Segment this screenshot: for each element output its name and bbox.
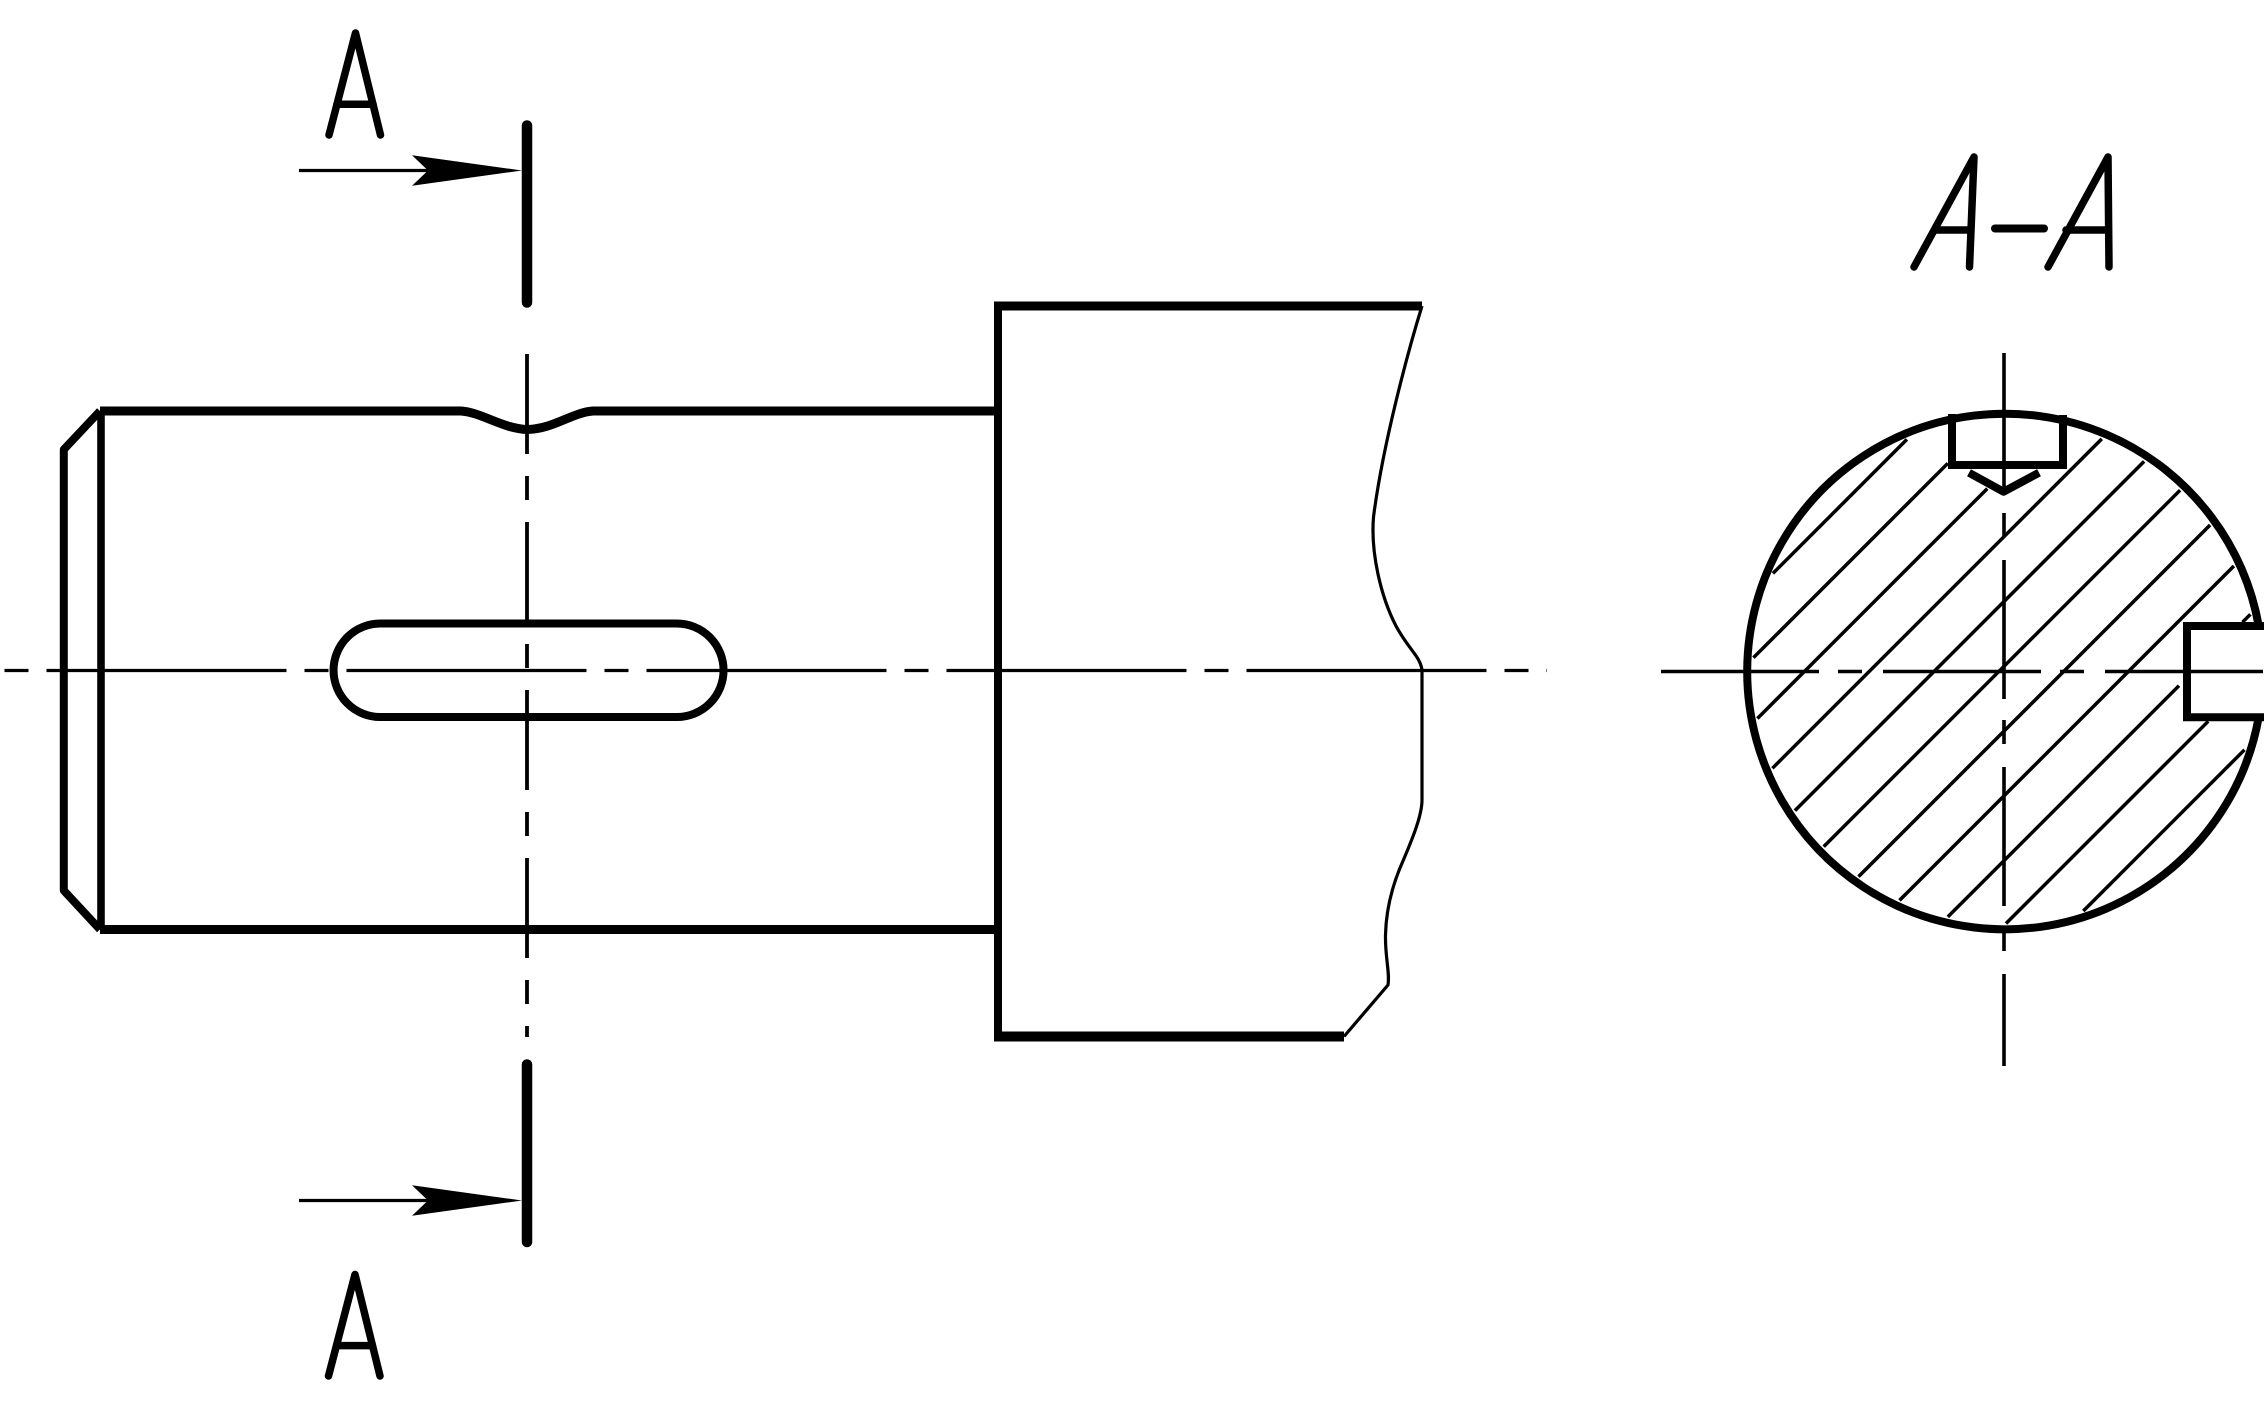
bottom viewing-direction arrowhead [412, 1185, 522, 1216]
cutting-plane thick mark top [522, 126, 533, 303]
chamfer edge line [97, 411, 105, 930]
section hatching [1753, 439, 2250, 924]
bottom viewing-direction arrow shaft [299, 1199, 430, 1202]
hub bottom edge [994, 1032, 1344, 1042]
keyway notch in section (top) [1952, 414, 2063, 465]
section label A-A [1914, 157, 2109, 267]
shaft left end face with chamfer [64, 411, 100, 930]
keyway slot (stadium outline) [334, 624, 724, 718]
shaft horizontal centerline [5, 669, 1548, 672]
label A (top) [329, 33, 381, 135]
hub top edge [994, 302, 1422, 311]
cutting-plane trace (thin dash-dot) [525, 354, 529, 1037]
hub left edge [994, 306, 1002, 1037]
cutting-plane thick mark bottom [522, 1065, 533, 1243]
keyway notch V bottom [1969, 473, 2039, 492]
shaft top edge with relief dip [100, 411, 998, 430]
section view vertical centerline [2002, 353, 2006, 1066]
top viewing-direction arrowhead [412, 155, 522, 186]
keyway slot in section (right) [2187, 626, 2264, 717]
section circle outline (interrupted by keyway slot) [1747, 414, 2259, 930]
shaft bottom edge [100, 925, 998, 934]
top viewing-direction arrow shaft [299, 169, 430, 172]
section view horizontal centerline [1661, 670, 2264, 674]
hub broken-out wavy break line [1344, 306, 1422, 1037]
label A (bottom) [329, 1275, 381, 1377]
